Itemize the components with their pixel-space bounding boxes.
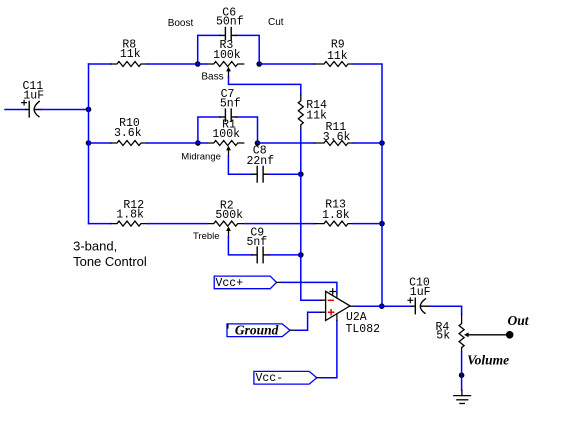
svg-text:5nf: 5nf xyxy=(220,98,241,111)
wire C9 to node xyxy=(269,254,301,256)
svg-text:Midrange: Midrange xyxy=(181,152,221,163)
wire mid row left xyxy=(89,142,112,144)
svg-text:50nf: 50nf xyxy=(216,16,244,29)
node R3 right xyxy=(256,61,262,67)
svg-text:Cut: Cut xyxy=(268,17,284,28)
wire C10 to R4 xyxy=(431,306,462,314)
capacitor C6 xyxy=(220,28,237,40)
resistor R11 xyxy=(315,141,354,146)
svg-text:5k: 5k xyxy=(436,330,450,343)
capacitor C9 xyxy=(252,247,269,263)
wire bass wiper to R14 xyxy=(229,77,301,95)
wire C6 box left xyxy=(198,35,220,64)
svg-text:Boost: Boost xyxy=(168,18,194,29)
wire treble wiper to C9 xyxy=(228,237,252,255)
svg-text:TL082: TL082 xyxy=(346,323,381,336)
svg-text:5nf: 5nf xyxy=(247,236,268,249)
svg-text:Ground: Ground xyxy=(235,322,279,337)
wiper arrow R3 xyxy=(226,67,231,77)
potentiometer R4 xyxy=(459,314,464,352)
wire R8 to R3 xyxy=(147,63,207,65)
capacitor C7 xyxy=(220,109,237,121)
capacitor C10 xyxy=(408,298,431,314)
svg-text:3.6k: 3.6k xyxy=(114,127,142,140)
wire C8 to node xyxy=(269,173,301,175)
wire R11 to right column xyxy=(354,142,383,144)
svg-text:Treble: Treble xyxy=(193,231,220,242)
svg-text:3.6k: 3.6k xyxy=(323,131,351,144)
wire left bus vertical xyxy=(88,64,90,224)
node volume bottom xyxy=(459,372,465,378)
node Out terminal xyxy=(506,331,514,339)
svg-text:Out: Out xyxy=(508,313,530,328)
svg-text:1uF: 1uF xyxy=(23,90,44,103)
resistor R9 xyxy=(315,62,354,67)
wire R10 to R1 xyxy=(147,142,207,144)
potentiometer R3 xyxy=(208,62,244,67)
wire R13 to right column xyxy=(354,223,383,225)
svg-text:22nf: 22nf xyxy=(247,155,275,168)
wire C7 box left xyxy=(198,117,220,143)
potentiometer R2 xyxy=(208,221,244,226)
wiper arrow R4 xyxy=(464,332,506,337)
wire Vcc+ to op-amp xyxy=(281,282,337,293)
capacitor C8 xyxy=(252,166,269,182)
node C9 junction xyxy=(298,252,304,258)
resistor R14 xyxy=(298,95,303,131)
resistor R8 xyxy=(111,62,147,67)
connector Vcc+ xyxy=(214,276,281,290)
connector Vcc- xyxy=(254,371,322,385)
wire treble row left xyxy=(89,223,112,225)
node output junction xyxy=(379,303,385,309)
wire R9 to right column xyxy=(354,64,383,306)
wire op-amp output xyxy=(356,305,412,307)
wire R3 to R9 xyxy=(259,63,314,65)
wire R12 to R2 xyxy=(147,223,207,225)
svg-text:Vcc-: Vcc- xyxy=(256,372,284,385)
svg-text:1uF: 1uF xyxy=(410,286,431,299)
node right column treble xyxy=(379,221,385,227)
node mid-left junction xyxy=(86,140,92,146)
wire C7 box right xyxy=(236,117,257,143)
wire mid wiper to C8 xyxy=(228,156,252,174)
svg-text:11k: 11k xyxy=(306,110,327,123)
wire input xyxy=(5,109,26,111)
svg-text:Tone Control: Tone Control xyxy=(73,254,147,269)
wire R2 to R13 xyxy=(245,223,315,225)
svg-text:500k: 500k xyxy=(215,209,243,222)
wiper arrow R1 xyxy=(226,146,231,156)
svg-text:11k: 11k xyxy=(327,50,348,63)
wire C6 box right xyxy=(236,35,259,64)
ground xyxy=(454,390,471,403)
node R1 left xyxy=(195,140,201,146)
svg-text:100k: 100k xyxy=(212,128,240,141)
op-amp U2A xyxy=(321,289,356,321)
node C8 junction xyxy=(298,171,304,177)
resistor R10 xyxy=(111,141,147,146)
svg-text:Volume: Volume xyxy=(467,353,509,368)
wire bass row left xyxy=(89,63,112,65)
node input junction xyxy=(86,107,92,113)
svg-text:Bass: Bass xyxy=(201,71,223,82)
wire Vcc- to op-amp xyxy=(322,321,337,378)
svg-text:1.8k: 1.8k xyxy=(322,209,350,222)
wire R14 to inverting input xyxy=(301,131,321,300)
svg-text:11k: 11k xyxy=(120,48,141,61)
connector Ground xyxy=(227,322,295,337)
capacitor C11 xyxy=(22,100,41,117)
wiper arrow R2 xyxy=(226,226,231,236)
resistor R12 xyxy=(111,221,147,226)
resistor R13 xyxy=(315,221,354,226)
potentiometer R1 xyxy=(208,141,244,146)
wire C11 to left bus xyxy=(40,109,88,111)
svg-text:Vcc+: Vcc+ xyxy=(216,277,244,290)
node R3 left xyxy=(195,61,201,67)
svg-text:1.8k: 1.8k xyxy=(116,209,144,222)
svg-text:100k: 100k xyxy=(213,49,241,62)
svg-text:3-band,: 3-band, xyxy=(73,239,117,254)
wire R1 to R11 xyxy=(258,142,315,144)
node R1 right xyxy=(255,140,261,146)
node right column mid xyxy=(379,140,385,146)
wire Ground to non-inverting input xyxy=(295,312,321,330)
wire R4 to ground xyxy=(461,352,463,390)
